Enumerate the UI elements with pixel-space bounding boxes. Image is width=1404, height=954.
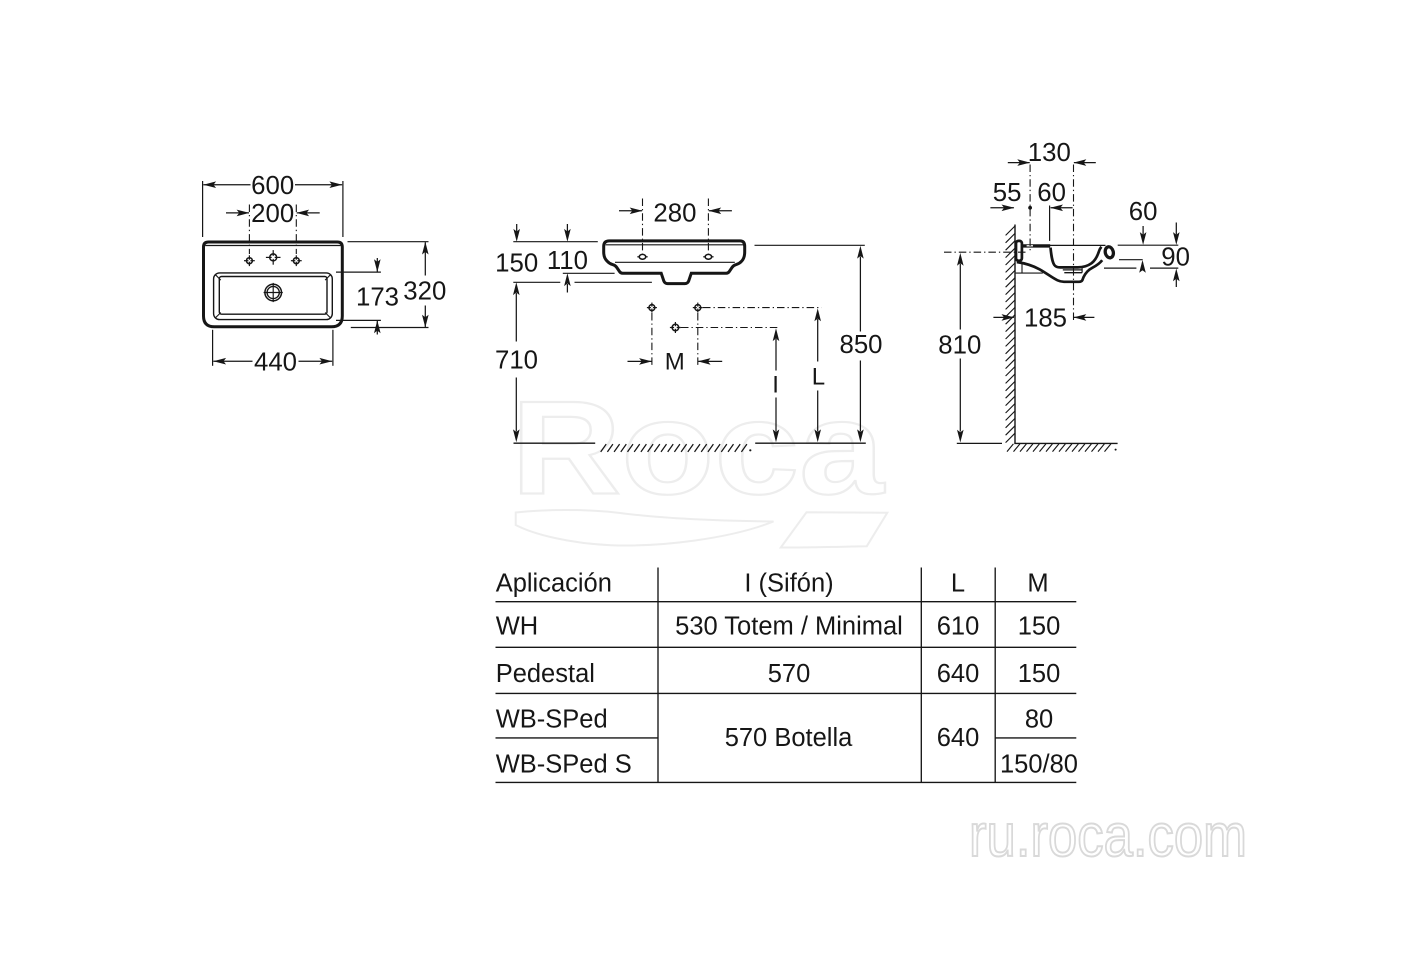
svg-text:80: 80 <box>1025 706 1053 734</box>
dim I line and arrows <box>773 328 780 442</box>
front view: rim inner edge line <box>606 244 743 246</box>
svg-text:320: 320 <box>403 278 446 306</box>
front view: siphon hole <box>670 322 681 333</box>
table row WB-SPed S <box>496 751 1078 779</box>
fixing hole level line (dash-dot horizontal) <box>944 251 1027 253</box>
front view: washbasin outline with drain box <box>604 241 745 284</box>
svg-text:150: 150 <box>1018 660 1061 688</box>
svg-text:ru.roca.com: ru.roca.com <box>969 802 1247 869</box>
dim 110 bottom arrow <box>564 273 571 292</box>
svg-text:M: M <box>665 349 685 376</box>
svg-text:Pedestal: Pedestal <box>496 660 595 688</box>
side view: drain stub step lines <box>1063 268 1082 273</box>
dim 850 line and arrows <box>857 246 864 442</box>
svg-text:L: L <box>951 569 965 597</box>
svg-text:Aplicación: Aplicación <box>496 569 612 597</box>
plan view: basin inner rim <box>219 277 327 315</box>
svg-text:60: 60 <box>1037 179 1066 207</box>
front view: wall fixing hole left <box>647 303 657 313</box>
svg-text:640: 640 <box>937 660 980 688</box>
side view: bowl inner profile <box>1051 247 1102 268</box>
front view: faucet hole left <box>637 254 647 260</box>
plan view: drain with crosshair <box>264 283 283 302</box>
dim 60 wall extension line <box>1049 206 1051 241</box>
dim 280 arrows <box>619 208 732 215</box>
table: vertical rules <box>658 568 995 783</box>
dim 173 arrows <box>374 258 381 335</box>
dim 440 extension lines <box>213 330 333 366</box>
drain axis (dash-dot vertical) <box>1073 165 1075 322</box>
plan view: faucet hole right <box>291 255 302 266</box>
svg-text:I: I <box>772 372 779 399</box>
table: horizontal rules <box>496 602 1077 783</box>
side view: floor level segment for 810 <box>957 442 1002 444</box>
svg-text:150: 150 <box>1018 613 1061 641</box>
dim M extension lines (dash-dot) <box>652 313 698 367</box>
svg-text:60: 60 <box>1129 198 1158 226</box>
side view: wall face line <box>1014 225 1016 444</box>
svg-text:640: 640 <box>937 724 980 752</box>
svg-text:M: M <box>1027 569 1048 597</box>
side view: front lip section <box>1104 246 1114 259</box>
dim 440 line and arrows <box>213 358 332 365</box>
svg-text:570: 570 <box>768 660 811 688</box>
dim 110 top arrow <box>564 224 571 242</box>
dim 60 depth arrows <box>1139 226 1146 273</box>
dim 200 arrows <box>226 210 320 217</box>
ground line <box>514 442 866 444</box>
plan view: inner top edge line <box>205 245 340 247</box>
dim 185 arrows <box>993 314 1094 321</box>
plan view: basin corner chamfer lines <box>215 275 330 318</box>
ground hatching <box>601 444 752 452</box>
svg-text:850: 850 <box>839 331 882 359</box>
svg-text:185: 185 <box>1024 304 1067 332</box>
table row WB-SPed <box>496 706 1053 734</box>
dim 710 line and arrows <box>513 282 520 442</box>
dim 90 arrows <box>1173 223 1180 288</box>
svg-text:110: 110 <box>547 247 588 275</box>
dim 200 extension lines (dash-dot) <box>249 205 296 255</box>
table merged cells 570 Botella / 640 <box>725 724 980 752</box>
svg-text:L: L <box>812 364 825 391</box>
svg-text:WH: WH <box>496 613 538 641</box>
svg-text:200: 200 <box>251 200 294 228</box>
svg-text:Roca: Roca <box>511 375 885 523</box>
svg-text:130: 130 <box>1028 139 1071 167</box>
basin bottom extension line <box>1104 267 1178 269</box>
svg-text:90: 90 <box>1161 244 1190 272</box>
front view: faucet hole right <box>703 254 713 260</box>
dim 810 line and arrows <box>957 253 964 443</box>
table row Pedestal <box>496 660 1061 688</box>
dim 850 extension line <box>755 244 865 246</box>
plan view: washbasin outer body <box>204 242 343 327</box>
svg-text:55: 55 <box>993 179 1022 207</box>
svg-text:440: 440 <box>254 348 297 376</box>
overflow level extension line <box>1119 259 1143 261</box>
fixing holes level line (dash-dot) <box>703 307 822 309</box>
siphon hole level line (dash-dot) <box>681 327 778 329</box>
watermark Roca wave swoosh <box>516 510 888 547</box>
svg-text:150: 150 <box>495 249 538 277</box>
side view: wall hatching <box>1006 226 1015 443</box>
svg-text:173: 173 <box>356 283 399 311</box>
svg-text:570 Botella: 570 Botella <box>725 724 853 752</box>
dim 280 extension lines (dash-dot) <box>643 199 709 253</box>
side view: floor line <box>1014 442 1117 444</box>
side view: bracket underside lines <box>1016 262 1043 273</box>
svg-text:600: 600 <box>251 172 294 200</box>
dim 600 line and arrows <box>203 181 342 188</box>
side view: deck section (filled) <box>1022 244 1051 247</box>
svg-text:150/80: 150/80 <box>1000 751 1078 779</box>
front view: rim bottom edge line <box>615 261 735 263</box>
dim 320 extension lines <box>348 242 429 328</box>
plan view: basin outer rim <box>214 273 333 320</box>
svg-text:WB-SPed S: WB-SPed S <box>496 751 632 779</box>
dim L line and arrows <box>814 308 821 442</box>
dim 150 top arrow <box>513 224 520 242</box>
svg-text:WB-SPed: WB-SPed <box>496 706 608 734</box>
svg-text:810: 810 <box>938 332 981 360</box>
front view: wall fixing hole right <box>693 303 703 313</box>
side view: outer shell profile <box>1017 260 1102 282</box>
svg-text:710: 710 <box>495 347 538 375</box>
dim 110 bottom extension line <box>563 272 615 274</box>
side view: wall bracket <box>1016 241 1022 261</box>
rim top extension line (right) <box>1118 244 1179 246</box>
dim 320 line and arrows <box>422 242 429 328</box>
dim 600 extension lines <box>203 181 343 237</box>
watermark Roca logotype <box>511 375 885 523</box>
table row WH <box>496 613 1061 641</box>
dim M arrows <box>628 358 723 365</box>
dim 55 arrow and dot <box>990 205 1032 212</box>
dim 130 arrows <box>1008 159 1096 166</box>
side view: floor hatching <box>1007 444 1117 452</box>
svg-text:I (Sifón): I (Sifón) <box>744 569 833 597</box>
svg-text:530 Totem / Minimal: 530 Totem / Minimal <box>675 613 903 641</box>
plan view: faucet hole left <box>244 255 255 266</box>
dim 173 extension lines <box>336 272 381 320</box>
fixing hole axis (dash-dot vertical) <box>1029 165 1031 253</box>
dim 150 bottom extension line <box>513 281 652 283</box>
dim 60 wall arrow <box>1050 205 1072 212</box>
plan view: faucet hole middle <box>266 250 281 265</box>
dim 150/110 top extension line <box>513 241 598 243</box>
svg-text:610: 610 <box>937 613 980 641</box>
side view: rim top silhouette line <box>1050 244 1106 246</box>
svg-text:280: 280 <box>653 200 696 228</box>
